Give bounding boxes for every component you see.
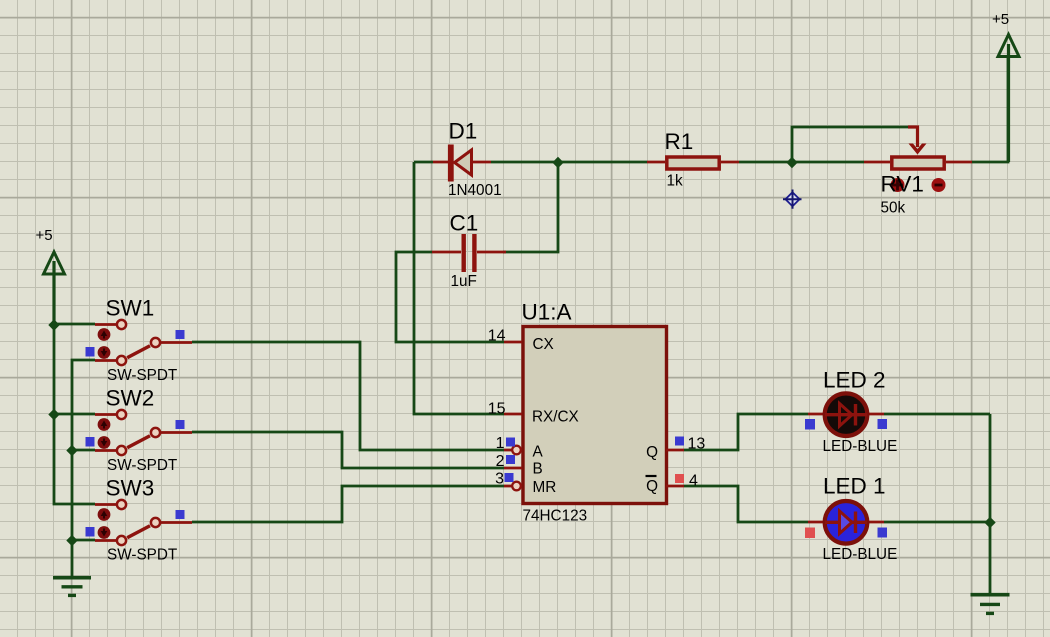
svg-text:74HC123: 74HC123 (523, 508, 588, 525)
capacitor C1 (432, 211, 506, 291)
wire: LED1 right to ground rail (884, 521, 990, 524)
pin 1 A (with bubble) (496, 435, 544, 461)
switch SW3 (SW-SPDT) (86, 476, 193, 564)
switch SW2 (SW-SPDT) (86, 386, 193, 475)
svg-text:LED-BLUE: LED-BLUE (823, 546, 898, 563)
switch SW1 (SW-SPDT) (86, 296, 193, 385)
svg-text:1uF: 1uF (451, 273, 477, 290)
svg-text:U1:A: U1:A (522, 300, 572, 325)
svg-text:LED 2: LED 2 (823, 368, 886, 393)
svg-text:SW-SPDT: SW-SPDT (107, 457, 177, 474)
svg-text:SW1: SW1 (106, 296, 155, 321)
power +5 top right (992, 11, 1019, 162)
wire: left ground rail with branches (72, 360, 95, 577)
wire: main row y=162 segments (414, 161, 864, 164)
svg-text:LED 1: LED 1 (823, 474, 886, 499)
svg-text:1k: 1k (667, 173, 684, 190)
node: junction ground rail at SW3 (66, 535, 77, 546)
svg-text:3: 3 (495, 471, 504, 488)
node: junction right ground rail at LED1 (984, 517, 995, 528)
node: junction at D1/C1 net (552, 157, 563, 168)
pin 13 Q (646, 436, 705, 462)
pin 3 MR (with bubble) (495, 471, 556, 497)
svg-text:D1: D1 (449, 119, 478, 144)
pin 2 B (496, 453, 543, 478)
svg-text:Q: Q (646, 478, 658, 495)
ground bottom left (53, 578, 91, 596)
power +5 left (36, 227, 65, 324)
svg-text:+5: +5 (36, 227, 53, 244)
pin 14 CX (488, 328, 554, 354)
wire: left +5 rail with branches to switches (54, 262, 95, 504)
svg-text:1: 1 (496, 435, 505, 452)
wire: SW1 common to pin A (192, 342, 504, 450)
op-amp U1 (74HC123 monostable) body (522, 300, 667, 525)
svg-text:C1: C1 (450, 211, 479, 236)
svg-text:SW-SPDT: SW-SPDT (107, 367, 177, 384)
wire: junction to RV1 wiper loop (792, 127, 908, 162)
LED D1 "LED 1" (on, blue) (805, 474, 897, 564)
svg-text:15: 15 (488, 401, 506, 418)
svg-text:SW3: SW3 (106, 476, 155, 501)
wire: C1 right up to junction (503, 162, 558, 252)
wire: SW3 common to pin MR (192, 486, 504, 522)
wire: D1 cathode down to RX/CX pin (414, 162, 504, 414)
node: junction +5 rail at SW1 (48, 319, 59, 330)
svg-text:14: 14 (488, 328, 506, 345)
svg-text:2: 2 (496, 453, 505, 470)
diode D1 (433, 119, 502, 200)
node: junction at R1/RV1 wiper net (786, 157, 797, 168)
svg-text:R1: R1 (665, 129, 694, 154)
svg-text:RV1: RV1 (881, 172, 924, 197)
svg-text:Q: Q (646, 444, 658, 461)
ground bottom right (971, 595, 1010, 614)
wire: LED2 right to ground rail (884, 413, 990, 416)
svg-text:1N4001: 1N4001 (448, 182, 502, 199)
svg-text:+5: +5 (992, 11, 1009, 28)
wire: C1 left to CX pin (396, 252, 504, 342)
resistor R1 (647, 129, 739, 190)
svg-text:MR: MR (533, 479, 557, 496)
wire: SW2 common to pin B (192, 432, 504, 468)
wire: right ground rail (989, 414, 992, 594)
svg-text:SW2: SW2 (106, 386, 155, 411)
wire: Q to LED2 (684, 414, 808, 450)
pin 4 Q-bar (646, 473, 699, 496)
potentiometer RV1 (864, 127, 972, 217)
svg-text:A: A (533, 444, 544, 461)
node: junction +5 rail at SW2 (48, 409, 59, 420)
wire: Q-bar to LED1 (684, 486, 808, 522)
svg-text:13: 13 (688, 436, 706, 453)
wire: +5 rail top right to RV1 (972, 57, 1008, 162)
svg-text:50k: 50k (881, 200, 906, 217)
node: junction ground rail at SW2 (66, 445, 77, 456)
svg-text:LED-BLUE: LED-BLUE (823, 438, 898, 455)
svg-text:RX/CX: RX/CX (532, 409, 579, 426)
svg-text:4: 4 (689, 473, 698, 490)
svg-text:CX: CX (533, 336, 554, 353)
svg-text:B: B (533, 461, 543, 478)
LED D2 "LED 2" (off, dark) (805, 368, 897, 456)
origin marker (blue crosshair) (783, 190, 802, 209)
svg-text:SW-SPDT: SW-SPDT (107, 547, 177, 564)
pin 15 RX/CX (488, 401, 579, 426)
